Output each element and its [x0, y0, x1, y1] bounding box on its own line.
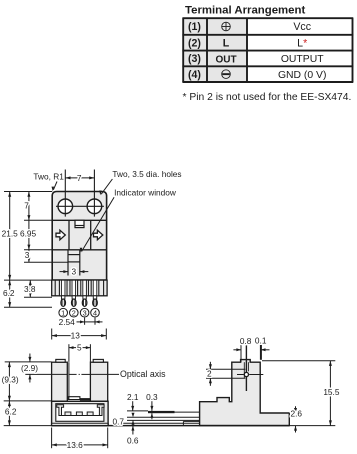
dimension 2.9 paren — [21, 354, 38, 383]
profile optical axis circle — [244, 372, 248, 376]
svg-text:(2): (2) — [188, 37, 201, 49]
base shelf line — [62, 415, 100, 417]
dimension 2.1 — [127, 392, 139, 411]
flange end verticals — [55, 280, 103, 296]
svg-text:3: 3 — [83, 308, 87, 317]
profile optical axis horizontal — [237, 374, 263, 376]
label Indicator window — [80, 187, 177, 252]
svg-text:Indicator window: Indicator window — [114, 187, 177, 197]
dimension 13.6 bottom — [52, 428, 108, 450]
pin 2 lead — [72, 281, 76, 300]
lead strip lines — [122, 417, 200, 425]
dimension 3.8 left — [24, 280, 36, 297]
svg-text:2.1: 2.1 — [127, 392, 139, 402]
pin 3 lead — [83, 281, 87, 300]
svg-text:6.2: 6.2 — [5, 407, 17, 417]
base notches — [65, 412, 93, 416]
pin 1 tip loop — [61, 299, 66, 306]
table symbol minus (GND) row4 — [222, 70, 231, 79]
block arrow right — [94, 230, 103, 240]
svg-text:21.5: 21.5 — [2, 229, 19, 239]
svg-text:6.95: 6.95 — [20, 229, 37, 239]
extension line divider2 — [24, 249, 52, 251]
svg-text:* Pin 2 is not used for the EE: * Pin 2 is not used for the EE-SX474. — [183, 92, 352, 103]
svg-text:(3): (3) — [188, 53, 201, 65]
dimension 3 left — [25, 250, 31, 262]
optical axis line — [25, 373, 119, 375]
svg-text:13.6: 13.6 — [67, 440, 84, 450]
indicator window lower box — [68, 250, 80, 276]
extension line pin tips — [4, 306, 52, 308]
extension line tower top left — [5, 361, 52, 363]
side view right tower tab — [93, 359, 103, 362]
front view middle verticals — [69, 220, 91, 250]
pin 1 channel — [59, 280, 67, 296]
dimension 3 indicator width — [60, 267, 89, 277]
dimension 2 arrows — [207, 362, 212, 386]
dimension arrows 0.8 0.1 — [233, 348, 269, 351]
chip line thin right — [175, 411, 200, 413]
profile 0.8 extension vertical — [240, 345, 242, 362]
svg-text:(9.3): (9.3) — [2, 375, 19, 385]
pin 4 number circle — [91, 308, 100, 317]
hole center lines — [56, 170, 104, 217]
pin 1 number circle — [59, 308, 68, 317]
dimension 21.5 left — [2, 192, 19, 281]
svg-text:0.8: 0.8 — [240, 336, 252, 346]
svg-text:2: 2 — [207, 369, 212, 379]
side view left tower tab — [56, 359, 65, 362]
svg-text:7: 7 — [24, 201, 29, 211]
side view right tower — [90, 362, 107, 401]
table value column texts — [278, 21, 327, 81]
front view section divider lower — [52, 249, 106, 251]
dimension 0.7 — [112, 413, 134, 427]
front view body outline — [52, 192, 106, 281]
svg-text:4: 4 — [93, 308, 97, 317]
dimension 15.5 — [262, 361, 340, 426]
profile view body — [200, 360, 290, 426]
table pin number column — [188, 21, 201, 81]
dimension 6.2 left — [3, 280, 15, 307]
pin flange block — [52, 280, 107, 296]
svg-text:0.1: 0.1 — [255, 335, 267, 345]
dimension 7 left — [24, 192, 30, 221]
svg-text:Vcc: Vcc — [293, 21, 311, 33]
label Two 3.5 dia holes — [99, 169, 181, 196]
svg-text:3.8: 3.8 — [24, 284, 36, 294]
label Two R1 — [33, 172, 64, 192]
svg-text:3: 3 — [71, 267, 76, 277]
pin 4 lead — [93, 281, 97, 300]
svg-text:GND (0 V): GND (0 V) — [278, 70, 327, 81]
pin 4 tip loop — [93, 299, 98, 306]
side view base block — [52, 401, 109, 425]
svg-text:L*: L* — [297, 38, 307, 50]
dimension 2 lines — [206, 369, 245, 378]
extension line indicator bottom — [24, 261, 68, 263]
dimension 9.3 paren — [2, 362, 19, 401]
svg-text:6.2: 6.2 — [3, 288, 15, 298]
pin 4 channel — [91, 280, 99, 296]
extension line body top — [4, 191, 52, 193]
mounting hole left — [58, 199, 73, 214]
pin 2 channel — [70, 280, 78, 296]
dimension 7 top horizontal — [65, 173, 94, 183]
svg-text:3: 3 — [25, 250, 30, 260]
baseline shared — [52, 425, 290, 427]
table symbol plus (Vcc) row1 — [222, 22, 231, 31]
dimension 0.3 — [146, 392, 158, 420]
svg-text:Optical axis: Optical axis — [120, 369, 166, 379]
extension line base top left — [4, 400, 52, 402]
dimension 0.6 — [127, 426, 139, 446]
svg-text:13: 13 — [71, 330, 81, 340]
svg-text:0.6: 0.6 — [127, 436, 139, 446]
svg-text:0.3: 0.3 — [146, 392, 158, 402]
svg-text:7: 7 — [77, 173, 82, 183]
dimension 2.6 — [291, 406, 303, 432]
dimension 6.2 side view — [5, 401, 17, 426]
svg-text:15.5: 15.5 — [323, 387, 340, 397]
svg-text:L: L — [223, 38, 230, 50]
extension line divider1 — [24, 219, 52, 221]
svg-text:5: 5 — [77, 342, 82, 352]
mounting hole right — [87, 199, 102, 214]
indicator window upper box — [75, 220, 84, 227]
pin 2 tip loop — [72, 299, 77, 306]
pin 1 lead — [61, 281, 65, 300]
base lower strip — [52, 423, 109, 425]
block arrow left — [56, 230, 65, 240]
terminal arrangement table grid — [182, 18, 353, 82]
pin 3 channel — [81, 280, 89, 296]
svg-text:Two, R1: Two, R1 — [33, 172, 64, 182]
extension line baseline left — [4, 425, 52, 427]
pin 2 number circle — [70, 308, 79, 317]
profile 0.1 extension vertical thick — [260, 345, 262, 360]
dimension 6.95 left — [20, 220, 37, 250]
profile center axis vertical — [245, 345, 247, 392]
extension line body bottom — [4, 279, 52, 281]
base left clip — [57, 405, 64, 416]
svg-text:OUTPUT: OUTPUT — [281, 54, 324, 65]
front view section divider upper — [52, 219, 106, 221]
dimension 2.54 pin pitch — [59, 317, 103, 327]
pin 3 number circle — [80, 308, 89, 317]
svg-text:0.7: 0.7 — [112, 416, 124, 426]
svg-text:(1): (1) — [188, 21, 201, 33]
profile aperture verticals — [244, 362, 248, 378]
svg-text:Two, 3.5 dia. holes: Two, 3.5 dia. holes — [112, 169, 181, 179]
svg-text:2.54: 2.54 — [59, 317, 76, 327]
dimension 13 overall width — [52, 329, 107, 341]
chip line thick — [148, 411, 175, 413]
svg-text:2.6: 2.6 — [291, 409, 303, 419]
base right clip — [97, 405, 104, 416]
slot inner wall line — [68, 362, 70, 399]
chip line thin left — [127, 410, 148, 412]
base inner connector box — [56, 404, 104, 422]
svg-text:(2.9): (2.9) — [21, 363, 38, 373]
pin 3 tip loop — [82, 299, 87, 306]
extension line flange bottom — [24, 296, 52, 298]
svg-text:(4): (4) — [188, 69, 201, 81]
slot bottom step — [68, 397, 80, 400]
svg-text:Terminal Arrangement: Terminal Arrangement — [185, 5, 305, 17]
svg-text:OUT: OUT — [215, 54, 236, 65]
side view left tower — [52, 362, 68, 401]
dimension 5 slot width — [69, 342, 91, 362]
slot floor thick — [68, 399, 91, 401]
